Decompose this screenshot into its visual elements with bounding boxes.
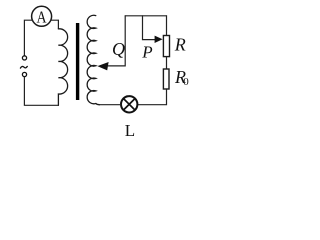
svg-text:A: A <box>37 8 48 27</box>
tap Q arrowhead <box>97 62 108 70</box>
AC source terminal top <box>22 56 26 60</box>
slider P wire <box>143 16 156 40</box>
svg-text:Q: Q <box>112 39 125 59</box>
wire R to R0 <box>166 57 168 69</box>
resistor R0 <box>163 69 169 89</box>
svg-text:L: L <box>125 121 135 140</box>
lamp L <box>121 96 137 112</box>
secondary top wire <box>125 15 166 17</box>
svg-text:P: P <box>141 42 152 61</box>
tap Q wire <box>108 16 125 66</box>
bottom wire lamp to secondary coil <box>99 104 121 106</box>
wire top to resistor R <box>166 16 168 36</box>
secondary winding <box>87 15 99 104</box>
wire bottom terminal to primary coil bottom <box>24 77 58 106</box>
wire ammeter-right to primary coil top <box>51 20 59 29</box>
primary winding <box>58 29 67 105</box>
ammeter A <box>32 6 52 26</box>
svg-text:0: 0 <box>183 76 189 88</box>
wire R0 to bottom corner <box>138 89 167 105</box>
AC source terminal bottom <box>22 72 26 76</box>
resistor R <box>163 36 169 57</box>
svg-text:R: R <box>174 34 186 54</box>
slider P arrowhead <box>155 36 163 43</box>
AC source tilde <box>20 66 27 68</box>
transformer core <box>76 23 79 100</box>
wire ammeter-left to top terminal <box>24 20 32 56</box>
